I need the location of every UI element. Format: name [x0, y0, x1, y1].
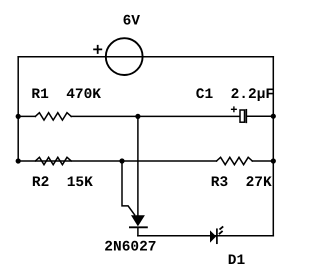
transistor Q1 2N6027 PUT triangle: [131, 215, 145, 226]
node junction R2 left: [16, 158, 21, 163]
wire row1 right segment: [247, 115, 273, 117]
node junction C1 right: [271, 114, 276, 119]
capacitor plus sign: [232, 107, 237, 111]
wire bottom rail: [138, 235, 273, 237]
wire PUT cathode lead: [137, 227, 139, 236]
diode D1 LED triangle: [210, 230, 216, 242]
wire row2: [18, 160, 216, 162]
wire PUT anode lead: [137, 116, 139, 215]
resistor R2: [35, 157, 71, 164]
node junction gate: [119, 158, 124, 163]
svg-text:C1 2.2µF: C1 2.2µF: [196, 87, 274, 103]
node junction R1 left: [16, 114, 21, 119]
wire row1 mid segment: [71, 115, 239, 117]
node junction R3 right: [271, 158, 276, 163]
resistor R1: [35, 113, 71, 120]
svg-text:R1 470K: R1 470K: [31, 87, 101, 103]
battery plus sign: [94, 46, 101, 53]
svg-text:R2 15K: R2 15K: [32, 175, 93, 191]
svg-text:6V: 6V: [123, 13, 141, 29]
capacitor C1 plate left: [240, 110, 245, 122]
diode D1 light ray 1: [219, 231, 223, 234]
wire top rail: [18, 56, 273, 58]
wire row2 right segment: [252, 160, 273, 162]
wire row1 left segment: [18, 115, 35, 117]
diode D1 light ray 2: [220, 226, 224, 229]
node junction anode top: [135, 114, 140, 119]
svg-text:R3 27K: R3 27K: [211, 175, 272, 191]
battery B1 6V: [106, 38, 143, 75]
wire left rail: [17, 57, 19, 161]
diode D1 cathode bar: [216, 229, 218, 243]
wire PUT gate lead: [122, 161, 135, 215]
capacitor C1 plate right: [245, 110, 247, 123]
transistor Q1 cathode bar: [130, 226, 147, 228]
wire right rail: [272, 57, 274, 236]
svg-text:D1: D1: [228, 253, 246, 269]
resistor R3: [217, 157, 253, 164]
svg-text:2N6027: 2N6027: [104, 240, 156, 256]
